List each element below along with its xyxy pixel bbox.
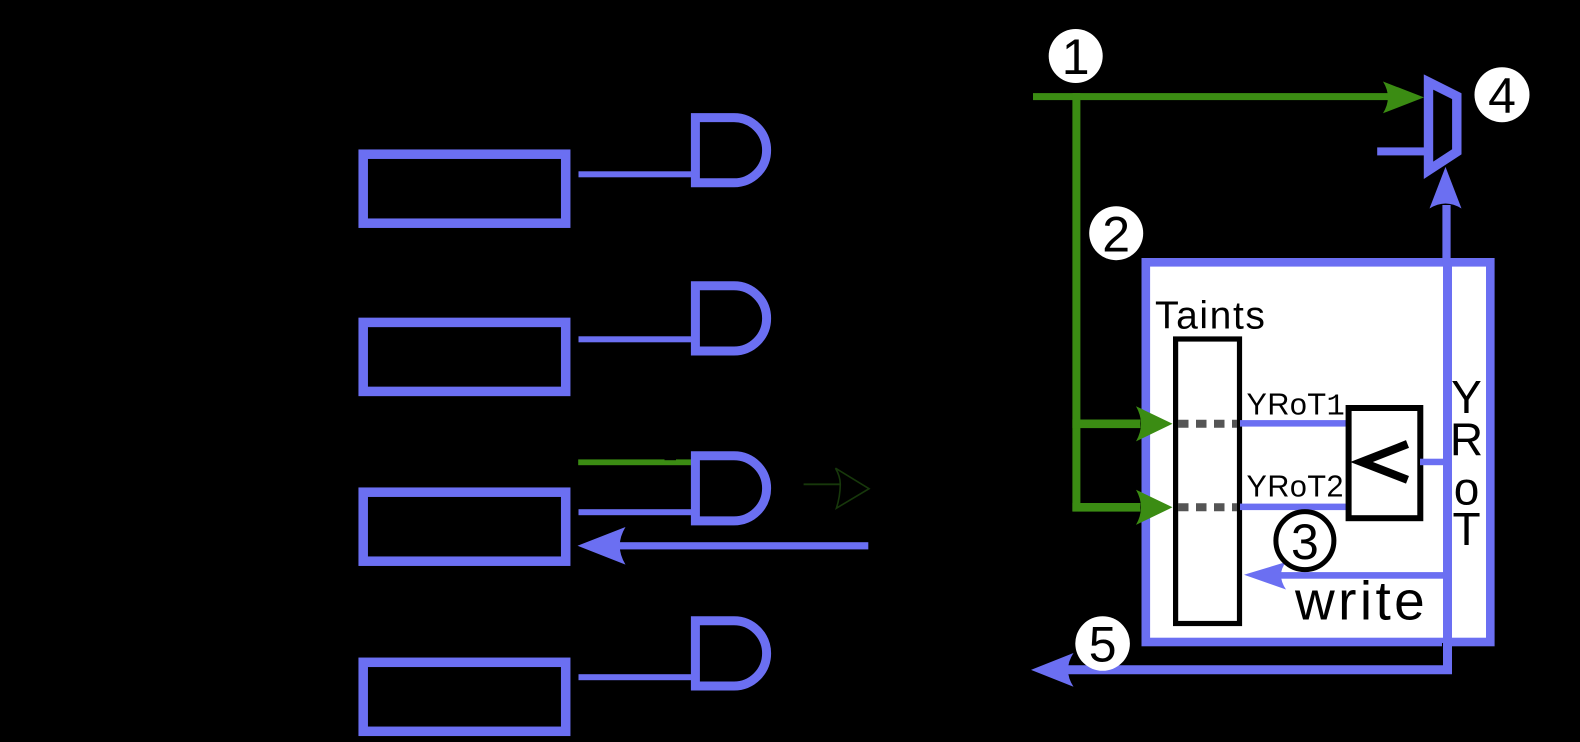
instruction box 1 xyxy=(363,154,566,223)
instruction box 2 xyxy=(363,322,566,391)
Taints taint-table xyxy=(1176,339,1240,624)
green arrowhead B into Taints xyxy=(1136,490,1173,525)
instruction box 4 xyxy=(363,662,566,731)
dashed taint entry A xyxy=(1178,420,1237,428)
wire to gate 2 xyxy=(579,336,697,342)
mux select shaft xyxy=(1442,205,1450,262)
node 5 xyxy=(1075,616,1130,671)
wire to gate 4 xyxy=(579,674,697,680)
svg-text:1: 1 xyxy=(1062,29,1090,85)
green branch wire B xyxy=(1072,503,1140,512)
YRoT1 wire xyxy=(1240,420,1348,427)
AND gate 2 xyxy=(695,286,766,351)
svg-text:write: write xyxy=(1294,570,1428,632)
tainted output arrow (dark green) of gate 3 xyxy=(804,468,869,508)
write arrowhead into Taints xyxy=(1244,562,1286,590)
AND gate 4 xyxy=(695,621,766,686)
green arrowhead A into Taints xyxy=(1136,406,1173,441)
svg-text:3: 3 xyxy=(1291,514,1319,570)
svg-text:YRoT1: YRoT1 xyxy=(1247,388,1346,425)
YRoT2 wire xyxy=(1240,504,1348,511)
black wire remnant at bottom-right corner xyxy=(1145,643,1444,666)
mux select arrowhead xyxy=(1430,167,1462,209)
instruction box 3 xyxy=(363,492,566,561)
svg-text:2: 2 xyxy=(1102,206,1130,262)
green branch wire A xyxy=(1072,420,1140,429)
svg-text:T: T xyxy=(1452,503,1480,555)
mux M1 xyxy=(1429,82,1457,170)
node 2 xyxy=(1089,206,1143,260)
dashed taint entry B xyxy=(1178,503,1237,511)
green vertical taint wire xyxy=(1072,93,1080,511)
AND gate 1 xyxy=(695,118,766,183)
comparator U1 xyxy=(1349,408,1421,518)
node 4 xyxy=(1475,67,1530,122)
mux untainted input wire xyxy=(1377,147,1429,155)
black wire remnant over green wire xyxy=(665,458,677,460)
svg-text:YRoT2: YRoT2 xyxy=(1247,470,1344,504)
comparator output wire xyxy=(1420,459,1447,466)
node 3 xyxy=(1276,512,1334,570)
green taint wire into gate 3 xyxy=(578,459,695,465)
wire to gate 3 xyxy=(579,509,697,515)
svg-text:R: R xyxy=(1450,414,1483,466)
YRoT shadow register box xyxy=(1146,262,1491,642)
YRoT column separator / result wire xyxy=(1060,262,1448,670)
AND gate 3 xyxy=(695,456,766,521)
wire to gate 1 xyxy=(579,171,697,177)
write wire xyxy=(1276,572,1448,579)
blue write-back arrow into box 3 xyxy=(613,542,868,549)
node 1 xyxy=(1049,29,1103,83)
svg-text:5: 5 xyxy=(1089,617,1117,673)
svg-text:Taints: Taints xyxy=(1155,294,1266,337)
green arrowhead into mux xyxy=(1383,82,1424,114)
green wire 1 (top horizontal) xyxy=(1033,93,1390,100)
svg-text:4: 4 xyxy=(1488,68,1516,124)
arrowhead 5 (left, bottom) xyxy=(1031,653,1074,687)
comparator < symbol xyxy=(1362,444,1408,480)
